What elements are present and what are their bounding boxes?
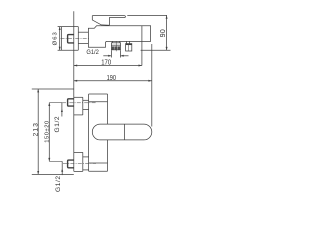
svg-text:G1/2: G1/2 [86,49,99,57]
svg-text:90: 90 [158,29,167,37]
svg-text:190: 190 [107,74,117,82]
svg-text:G1/2: G1/2 [54,116,61,133]
svg-text:170: 170 [101,59,111,67]
svg-text:150±20: 150±20 [44,120,50,143]
svg-text:213: 213 [32,122,39,136]
svg-text:G1/2: G1/2 [55,175,62,192]
svg-text:Ø63: Ø63 [53,31,59,45]
